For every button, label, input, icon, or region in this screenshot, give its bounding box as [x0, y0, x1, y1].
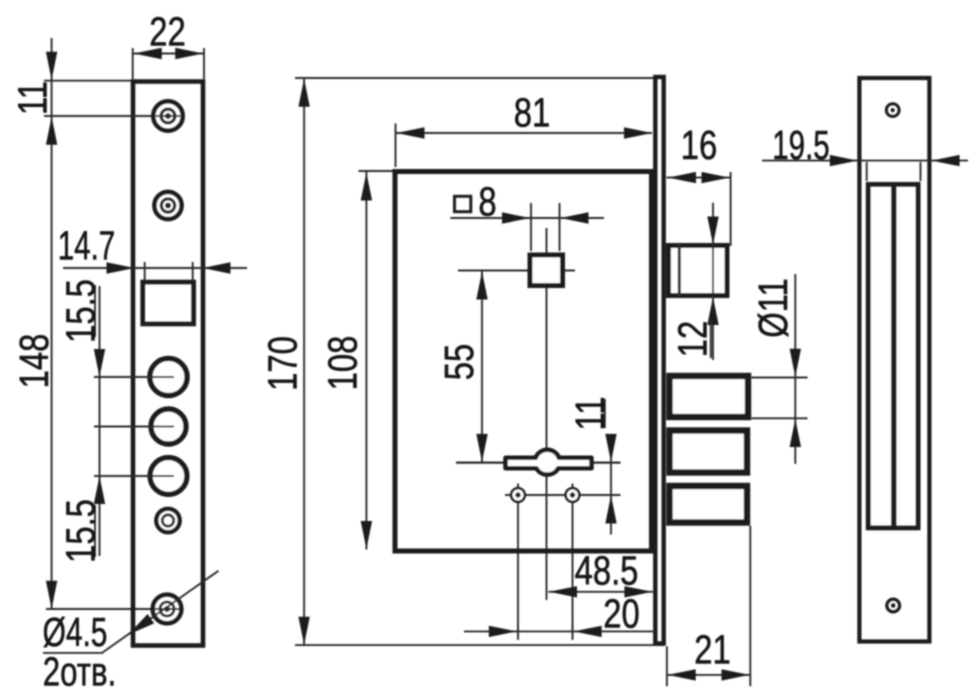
svg-text:148: 148	[10, 334, 56, 389]
dim 16 line	[667, 177, 732, 179]
dim 8 ext right	[559, 203, 561, 251]
dim 11k underline	[604, 399, 606, 428]
dim 170 line	[303, 79, 305, 645]
ext h1 center	[44, 115, 152, 117]
screw circles centerline	[505, 494, 621, 496]
spindle h-centerline	[458, 270, 575, 272]
dim 22 extension right	[203, 48, 205, 79]
dim 170 arrow down	[298, 617, 309, 645]
centerline big hole b3	[94, 475, 174, 477]
front plate outline	[133, 82, 203, 646]
svg-text:19.5: 19.5	[772, 122, 829, 168]
svg-text:11: 11	[9, 81, 55, 115]
dim 15.5 lower underline	[94, 505, 96, 557]
big hole b1	[150, 358, 187, 395]
dim 21 arrow right	[722, 669, 750, 680]
strike screw hole bottom	[887, 599, 900, 612]
dim 20 tick left	[517, 622, 519, 640]
dim 22 line	[133, 53, 204, 55]
dim 108 arrow up	[361, 173, 372, 201]
ext body top-left	[359, 170, 399, 172]
dim 11k arrow down	[605, 434, 616, 462]
centerline big hole b1	[94, 376, 174, 378]
centerline big hole b2	[94, 426, 174, 428]
keyhole centerline	[456, 462, 621, 464]
dim 19.5 line	[762, 160, 968, 162]
deadbolt 1	[670, 376, 749, 417]
screw hole h1 outer ring	[153, 101, 182, 130]
square symbol	[455, 196, 471, 211]
svg-text:11: 11	[566, 396, 612, 430]
leader underline	[43, 652, 103, 654]
dim 14.7 arrow left	[107, 262, 135, 273]
small hole h3 outer ring	[156, 509, 179, 532]
screw hole h2 center dot	[166, 204, 170, 208]
dim 81 ext left	[395, 124, 397, 168]
dim 55 arrow up	[476, 272, 487, 300]
strike screw hole top	[886, 104, 899, 117]
dim 81 line	[396, 132, 652, 134]
dim 15.5 upper underline	[94, 285, 96, 337]
svg-text:Ø11: Ø11	[750, 278, 796, 338]
dim 48.5 arrow left	[549, 586, 577, 597]
dim 19.5 tick right	[920, 162, 922, 181]
screw hole h1 center dash	[156, 115, 180, 117]
svg-text:81: 81	[514, 89, 550, 135]
strike screw hole bottom dot	[892, 604, 895, 607]
dim 21 line	[667, 674, 750, 676]
dim 15.5 line	[99, 286, 101, 556]
svg-text:12: 12	[669, 321, 715, 357]
svg-text:8: 8	[478, 178, 496, 224]
dim 22 arrow right	[175, 48, 203, 59]
screw hole h1 center dot	[166, 114, 170, 118]
ext screw circle left	[517, 484, 519, 638]
dim D11 ext top	[751, 377, 807, 379]
screw circle left dot	[516, 493, 520, 497]
svg-text:16: 16	[681, 122, 717, 168]
dim 8 line	[450, 217, 604, 219]
dim 108 arrow down	[361, 521, 372, 549]
dim 20 tick right	[572, 622, 574, 640]
faceplate bar	[655, 77, 663, 644]
lock body outline	[395, 172, 652, 552]
latch bevel line	[678, 244, 681, 297]
bottom screw h4 dash	[155, 608, 180, 610]
dim 21 ext right	[749, 526, 751, 687]
dim 12 arrow up	[707, 297, 718, 325]
svg-text:48.5: 48.5	[575, 547, 639, 593]
leader line to h4	[102, 571, 218, 653]
dim 21 arrow left	[668, 669, 696, 680]
centerline bottom screw h4	[46, 608, 177, 610]
square cutout	[143, 282, 194, 324]
dim 55 line	[481, 271, 483, 462]
deadbolt 3	[670, 486, 748, 523]
screw circle right	[566, 488, 580, 502]
dim D11 line	[794, 274, 796, 464]
dim 148 arrow down	[46, 581, 57, 609]
dim 12 underline	[710, 320, 712, 358]
dim 14.7 tick right	[192, 262, 194, 281]
screw circle right dot	[571, 493, 575, 497]
dim 21 ext left	[666, 646, 668, 686]
latch bolt	[669, 246, 728, 296]
bottom screw h4 inner ring	[160, 602, 174, 616]
dim 170 arrow up	[298, 79, 309, 107]
dim 11/148 line	[51, 38, 53, 609]
dim 19.5 arrow right-pointing	[830, 155, 858, 166]
centerline hole h1	[46, 115, 177, 117]
dim 20 line	[464, 630, 653, 632]
dim D11 ext bottom	[751, 417, 807, 419]
ext faceplate top	[295, 77, 657, 79]
dim 8 arrow left	[502, 212, 530, 223]
svg-text:55: 55	[435, 344, 481, 380]
dim 11k arrow up	[605, 496, 616, 524]
dim 11 arrow down	[46, 52, 57, 80]
screw hole h1 inner ring	[161, 109, 175, 123]
bottom screw h4 outer ring	[153, 595, 182, 624]
dim 16 arrow left	[668, 172, 696, 183]
svg-text:108: 108	[319, 336, 365, 391]
dim 48.5 arrow right	[624, 586, 652, 597]
screw hole h2 inner ring	[161, 199, 174, 212]
strike slot divider	[891, 186, 896, 526]
dim 15.5 arrow down	[94, 349, 105, 377]
dim 14.7 tick left	[144, 262, 146, 281]
dim 11k line	[610, 435, 612, 535]
dim 20 arrow right-pointing	[489, 626, 517, 637]
dim 16 arrow right	[702, 172, 730, 183]
dim 14.7 line	[63, 267, 247, 269]
dim 11 arrow up	[46, 117, 57, 145]
deadbolt 2	[670, 431, 748, 473]
dim 108 line	[365, 172, 367, 550]
screw circle left	[511, 488, 525, 502]
dim 55 arrow down	[476, 434, 487, 462]
svg-text:22: 22	[149, 8, 185, 54]
ext plate top	[44, 80, 131, 82]
dim 19.5 tick left	[866, 162, 868, 181]
dim 22 arrow left	[134, 48, 162, 59]
dim 8 arrow right	[561, 212, 589, 223]
spindle v-centerline	[546, 228, 548, 600]
strike slot outline	[868, 184, 918, 528]
svg-text:15.5: 15.5	[57, 499, 103, 563]
svg-text:15.5: 15.5	[57, 279, 103, 343]
dim 20 arrow left-pointing	[574, 626, 602, 637]
dim 14.7 arrow right	[203, 262, 231, 273]
strike plate outline	[859, 78, 929, 642]
big hole b3	[150, 458, 187, 495]
ext screw circle right	[572, 484, 574, 638]
dim 81 arrow right	[624, 127, 652, 138]
dim 81 arrow left	[397, 127, 425, 138]
svg-text:21: 21	[694, 626, 730, 672]
svg-text:20: 20	[603, 590, 639, 636]
bottom screw h4 center dot	[165, 607, 169, 611]
screw hole h2 outer ring	[154, 192, 181, 219]
svg-text:2отв.: 2отв.	[43, 648, 116, 694]
svg-text:14.7: 14.7	[58, 223, 115, 269]
svg-text:170: 170	[259, 336, 305, 391]
dim 16 ext right	[730, 172, 732, 246]
spindle square hole	[530, 255, 563, 286]
leader arrowhead	[125, 614, 154, 639]
strike screw hole top dot	[891, 109, 894, 112]
dim D11 arrow down	[790, 349, 801, 377]
dim D11 arrow up	[790, 419, 801, 447]
dim 12 arrow down	[707, 217, 718, 245]
dim 12 line	[712, 203, 714, 360]
dim 8 ext left	[530, 203, 532, 251]
big hole b2	[151, 409, 186, 444]
small hole h3 inner ring	[162, 515, 173, 526]
ext bottom line	[295, 644, 664, 646]
keyhole slot	[506, 450, 592, 475]
dim 48.5 line	[548, 591, 653, 593]
dim 15.5 arrow up	[94, 476, 105, 504]
dim 22 extension left	[132, 48, 134, 79]
dim 19.5 arrow left-pointing	[932, 155, 960, 166]
